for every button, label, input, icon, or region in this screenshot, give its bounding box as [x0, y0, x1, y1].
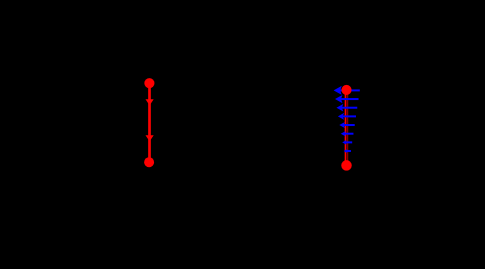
right bottom charge dot: [341, 160, 352, 171]
current arrow row 8: [344, 149, 351, 153]
right red wire: [344, 90, 346, 165]
left top charge dot: [144, 78, 154, 88]
current arrow row 6: [341, 131, 354, 137]
current arrow row 2: [335, 95, 359, 103]
right top charge dot: [341, 85, 351, 95]
left bottom charge dot: [144, 157, 154, 167]
current arrow row 1: [334, 86, 360, 95]
right darkred wire: [346, 90, 348, 165]
current arrow row 3: [336, 104, 357, 112]
current arrowhead upper (down): [146, 99, 154, 105]
current arrow row 7: [342, 140, 352, 145]
current arrowhead lower (down): [146, 135, 154, 141]
current arrow row 4: [338, 113, 356, 120]
left dipole wire: [148, 83, 151, 162]
current arrow row 5: [339, 122, 354, 128]
